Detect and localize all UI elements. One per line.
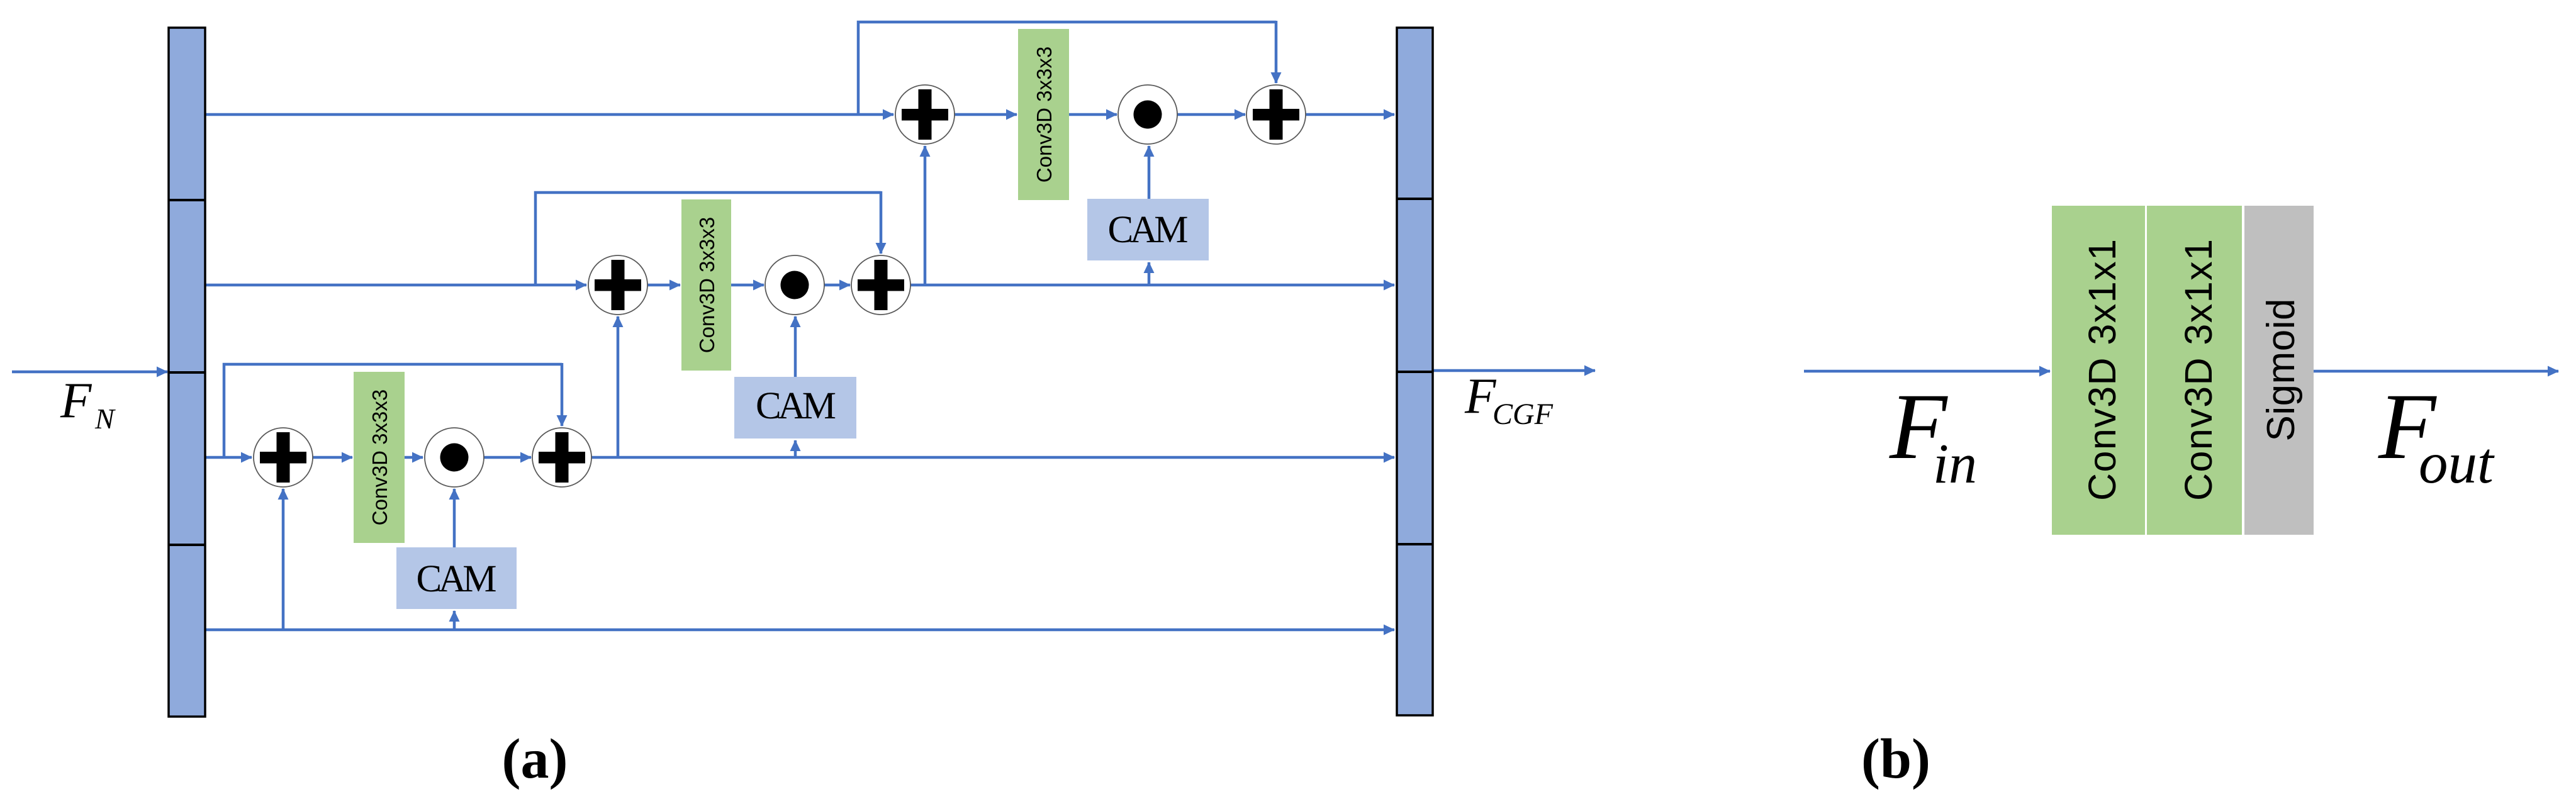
- svg-text:out: out: [2419, 431, 2495, 496]
- svg-text:F: F: [60, 372, 92, 428]
- svg-text:Sigmoid: Sigmoid: [2260, 299, 2303, 442]
- svg-text:Conv3D 3x3x3: Conv3D 3x3x3: [1033, 47, 1056, 182]
- svg-text:CAM: CAM: [1108, 209, 1189, 251]
- svg-text:CGF: CGF: [1492, 398, 1554, 431]
- svg-text:(a): (a): [502, 728, 568, 790]
- svg-text:(b): (b): [1861, 728, 1930, 790]
- svg-text:CAM: CAM: [417, 558, 497, 600]
- svg-text:Conv3D 3x1x1: Conv3D 3x1x1: [2081, 239, 2124, 501]
- svg-text:in: in: [1933, 433, 1977, 495]
- svg-text:Conv3D 3x3x3: Conv3D 3x3x3: [368, 389, 391, 525]
- svg-text:Conv3D 3x1x1: Conv3D 3x1x1: [2177, 239, 2220, 501]
- svg-text:Conv3D 3x3x3: Conv3D 3x3x3: [695, 217, 719, 353]
- svg-text:N: N: [94, 403, 116, 435]
- svg-text:CAM: CAM: [756, 385, 836, 427]
